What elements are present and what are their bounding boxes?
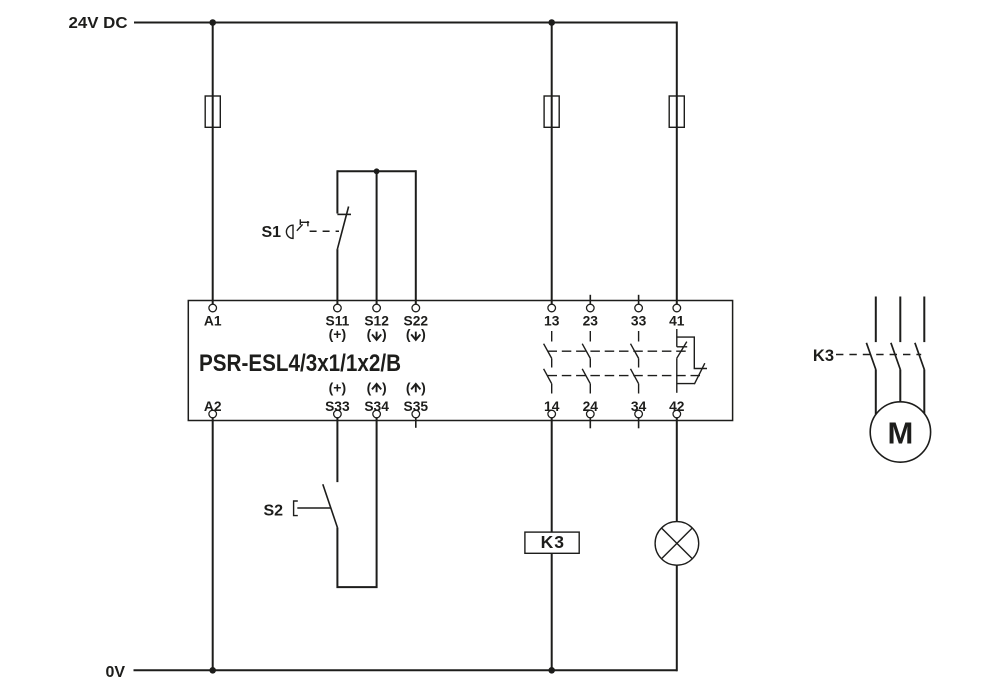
contactor K3 phase L3 lead [923,297,925,343]
svg-text:(: ( [406,379,411,395]
svg-text:24: 24 [583,399,599,414]
junction dot S12 [374,168,380,174]
emergency stop S1 NC contact [337,207,351,250]
svg-text:K3: K3 [813,347,834,365]
wire S11 upper lead [336,170,338,213]
junction dot rail/13 [548,19,555,26]
wire S2 bottom loop [337,418,376,587]
wire S1 loop top [337,170,415,172]
svg-text:S34: S34 [364,399,389,414]
stub terminal 24 [589,418,591,428]
terminal 42 [673,410,681,418]
safety contact 23-24 [582,331,590,394]
stub terminal S35 [415,418,417,428]
wire S33 lead [336,418,338,482]
terminal 13 [548,304,556,312]
mechanical linkage dashed upper [548,350,688,352]
svg-text:): ) [382,379,387,395]
contactor K3 contact 1 [866,343,875,370]
svg-text:41: 41 [669,314,685,329]
wire 0V rail [134,669,678,671]
contactor K3 contact 2 [891,343,900,370]
stub terminal 23 [589,295,591,305]
svg-text:): ) [421,326,426,342]
svg-text:A2: A2 [204,399,222,414]
svg-text:K3: K3 [541,532,565,552]
wire S12 lead [376,170,378,304]
wire S22 lead [415,170,417,304]
stub terminal 34 [638,418,640,428]
terminal S12 [373,304,381,312]
contactor K3 dashed linkage [836,354,921,356]
fuse F1 [205,96,220,127]
safety contact 33-34 [631,331,639,394]
svg-text:24V DC: 24V DC [69,15,128,32]
terminal S33 [334,410,342,418]
S2 pushbutton actuator [294,501,331,516]
svg-text:): ) [421,379,426,395]
svg-text:34: 34 [631,399,647,414]
junction dot rail/14 [548,667,555,674]
motor M [870,402,930,462]
wire contact3 to motor [923,370,925,415]
relay module PSR-ESL4/3x1/1x2/B body [188,301,732,421]
junction dot rail/A2 [209,667,216,674]
terminal S35 [412,410,420,418]
auxiliary NC contact 41-42 [677,329,707,393]
wire contact1 to motor [875,370,877,415]
svg-text:S1: S1 [262,224,282,241]
S1 turn-to-release glyph [297,219,309,231]
contactor K3 phase L1 lead [875,297,877,343]
svg-text:S33: S33 [325,399,350,414]
terminal A2 [209,410,217,418]
terminal 24 [587,410,595,418]
wire 13 column [551,23,553,305]
mechanical linkage dashed lower [548,375,702,377]
wire 42 to 0V [676,418,678,671]
wire 14 to 0V [551,418,553,670]
pin sublabel (down arrow) [406,326,426,342]
contactor K3 contact 3 [915,343,924,370]
wire 41 column [676,22,678,305]
terminal 33 [635,304,643,312]
svg-text:M: M [887,415,913,450]
svg-text:0V: 0V [106,664,126,681]
svg-text:S2: S2 [264,503,284,520]
terminal S34 [373,410,381,418]
terminal A1 [209,304,217,312]
svg-text:42: 42 [669,399,685,414]
terminal 23 [587,304,595,312]
reset button S2 NO contact [323,484,338,527]
svg-text:A1: A1 [204,314,222,329]
terminal S11 [334,304,342,312]
svg-text:PSR-ESL4/3x1/1x2/B: PSR-ESL4/3x1/1x2/B [199,350,401,377]
svg-text:(: ( [367,326,372,342]
terminal S22 [412,304,420,312]
relay coil K3 [525,532,579,553]
pin sublabel (up arrow) [406,379,426,395]
indicator lamp H1 [655,522,699,566]
svg-text:23: 23 [583,314,599,329]
svg-text:(+): (+) [329,379,347,395]
junction dot rail/A1 [209,19,216,26]
fuse F3 [669,96,684,127]
wire A1 column [212,23,214,305]
pin sublabel (down arrow) [367,326,387,342]
wire 24V DC rail [134,22,677,24]
svg-text:S35: S35 [404,399,429,414]
wire contact2 to motor [899,370,901,402]
wire S1 to S11 [336,249,338,304]
svg-text:33: 33 [631,314,647,329]
fuse F2 [544,96,559,127]
terminal 34 [635,410,643,418]
svg-text:14: 14 [544,399,560,414]
pin sublabel (up arrow) [367,379,387,395]
svg-text:): ) [382,326,387,342]
contactor K3 phase L2 lead [899,297,901,343]
svg-text:(: ( [367,379,372,395]
terminal 14 [548,410,556,418]
svg-text:(+): (+) [329,326,347,342]
svg-text:(: ( [406,326,411,342]
wire A2 to 0V [212,418,214,670]
S1 mushroom head actuator [286,225,293,238]
safety contact 13-14 [544,331,552,394]
terminal 41 [673,304,681,312]
svg-text:13: 13 [544,314,560,329]
S1 actuator dashed link [310,230,339,232]
stub terminal 33 [638,295,640,305]
